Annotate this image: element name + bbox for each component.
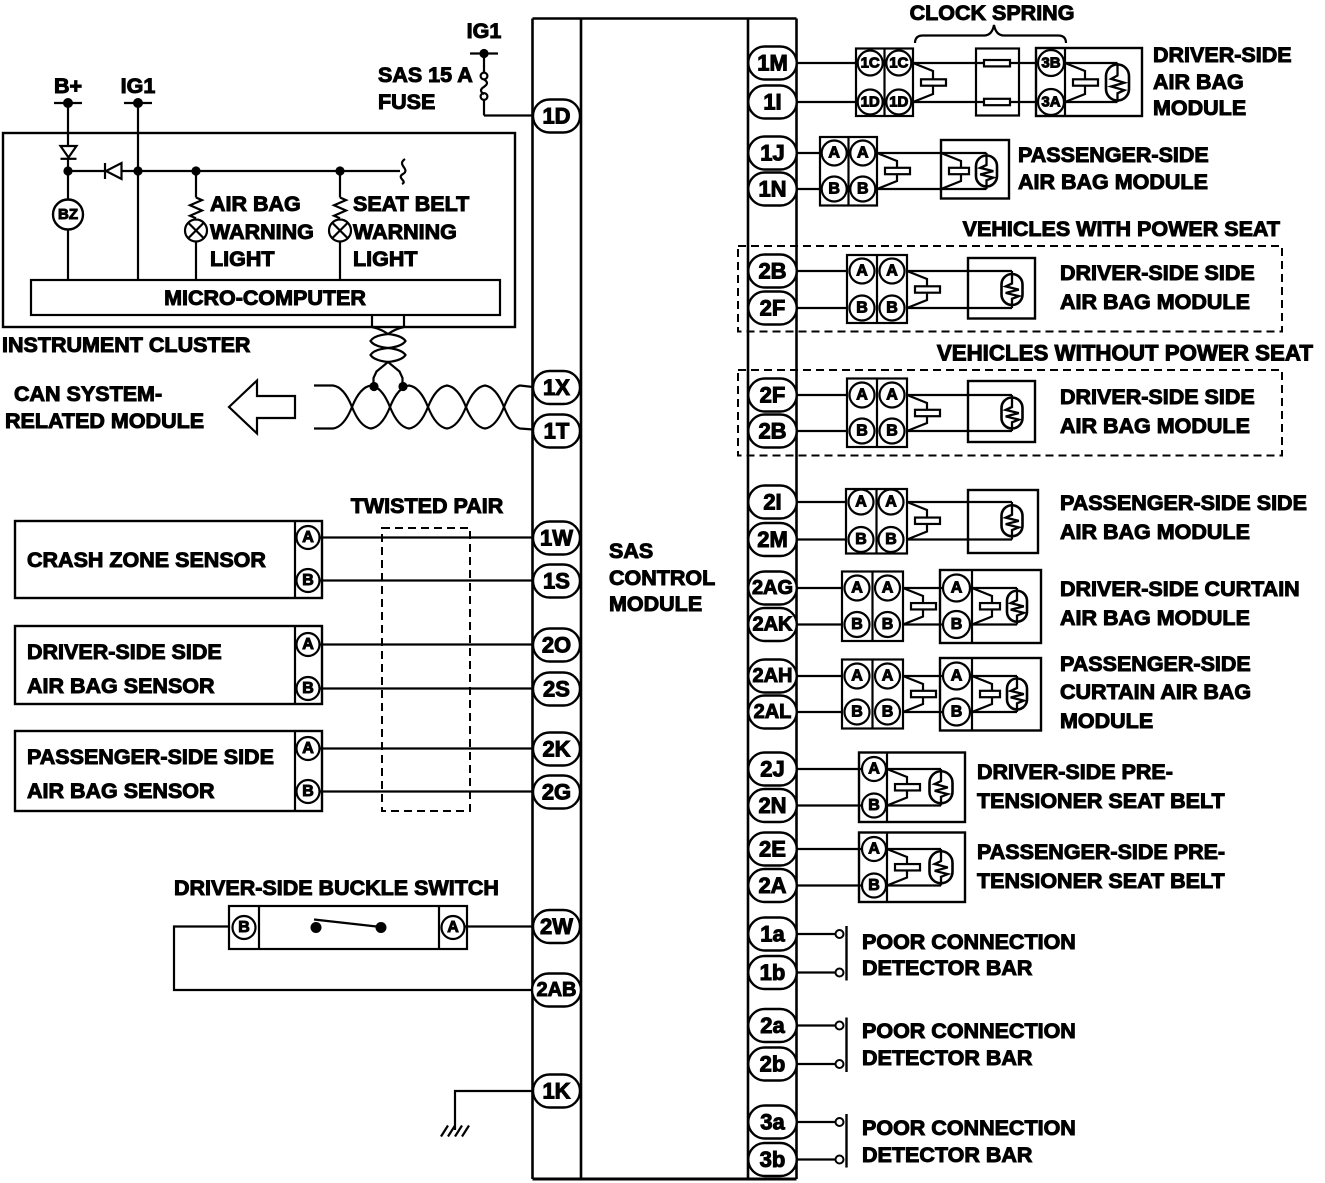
pin A right (no power seat) xyxy=(880,383,905,408)
svg-text:A: A xyxy=(857,145,869,162)
svg-text:2M: 2M xyxy=(757,527,788,552)
svg-text:2AH: 2AH xyxy=(752,665,792,687)
shorting resistor (no power seat module) xyxy=(1011,395,1013,431)
shorting resistor pre-tensioner xyxy=(940,849,942,886)
svg-text:AIR BAG SENSOR: AIR BAG SENSOR xyxy=(27,779,215,803)
wire B+ down to diode xyxy=(67,103,69,146)
label pre-tensioner seat belt xyxy=(977,840,1225,893)
wire lower to detector bar xyxy=(797,1158,836,1160)
svg-text:2F: 2F xyxy=(760,383,786,408)
svg-text:POOR CONNECTION: POOR CONNECTION xyxy=(862,1116,1076,1140)
squib driver-side side air bag (power seat) xyxy=(907,271,927,308)
wire 2F to connector (no power seat) xyxy=(797,394,848,396)
pin 3A xyxy=(1038,89,1064,115)
svg-text:A: A xyxy=(886,263,898,280)
svg-text:B: B xyxy=(238,919,250,936)
svg-text:AIR BAG MODULE: AIR BAG MODULE xyxy=(1060,520,1250,544)
svg-text:B: B xyxy=(951,616,963,633)
svg-text:2O: 2O xyxy=(542,633,571,658)
svg-text:VEHICLES WITHOUT POWER SEAT: VEHICLES WITHOUT POWER SEAT xyxy=(937,341,1314,366)
shorting resistor driver air bag xyxy=(1116,63,1118,102)
connector 2AK xyxy=(748,608,797,641)
connector block driver side air bag (no power seat) xyxy=(847,379,907,448)
svg-text:B: B xyxy=(868,877,880,894)
svg-text:B: B xyxy=(851,616,863,633)
pin B left curtain xyxy=(845,612,870,637)
arrow to CAN system-related module xyxy=(229,381,295,434)
pin B curtain module xyxy=(943,611,970,638)
wire connector to clock spring coil lower xyxy=(913,101,984,103)
pin B pre-tensioner xyxy=(862,874,886,898)
squib at clock spring connector xyxy=(913,63,933,102)
connector 2AL xyxy=(748,696,797,729)
pin 1D right xyxy=(886,90,911,115)
svg-text:2b: 2b xyxy=(760,1052,786,1077)
pin A driver-side side sensor xyxy=(297,633,320,656)
resistor air bag warning xyxy=(190,171,202,218)
svg-text:BZ: BZ xyxy=(58,206,78,223)
svg-text:1D: 1D xyxy=(861,94,880,111)
wire 1I to clock spring connector xyxy=(797,101,857,103)
svg-text:POOR CONNECTION: POOR CONNECTION xyxy=(862,930,1076,954)
svg-text:2a: 2a xyxy=(760,1013,785,1038)
wire lower to pre-tensioner xyxy=(797,884,863,886)
svg-text:A: A xyxy=(855,494,867,511)
svg-text:MODULE: MODULE xyxy=(609,592,702,616)
pin B left (power seat) xyxy=(850,296,875,321)
pin B right curtain xyxy=(875,700,900,725)
svg-text:AIR BAG SENSOR: AIR BAG SENSOR xyxy=(27,674,215,698)
svg-text:DRIVER-SIDE PRE-: DRIVER-SIDE PRE- xyxy=(977,760,1173,784)
pin A right (passenger air bag) xyxy=(850,141,875,166)
micro-computer box xyxy=(31,280,500,315)
shorting resistor (power seat module) xyxy=(1011,271,1013,308)
pin A right curtain xyxy=(875,576,900,601)
label DRIVER-SIDE SIDE AIR BAG MODULE (no power seat) xyxy=(1060,385,1255,438)
svg-text:CRASH ZONE SENSOR: CRASH ZONE SENSOR xyxy=(27,548,266,572)
resistor seat belt warning xyxy=(334,171,346,218)
svg-text:POOR CONNECTION: POOR CONNECTION xyxy=(862,1019,1076,1043)
wire to module (power seat) lower xyxy=(907,307,1012,309)
poor connection detector bar xyxy=(845,1018,847,1073)
wire horizontal rail y171 xyxy=(68,170,400,172)
wire lower to detector bar xyxy=(797,971,836,973)
wire lower to pre-tensioner xyxy=(797,804,863,806)
junction dot air bag branch xyxy=(191,166,200,175)
squib at curtain connector xyxy=(903,588,923,625)
wire clock spring to 3A xyxy=(1010,101,1038,103)
pin B passenger-side side sensor xyxy=(297,780,320,803)
svg-text:CAN SYSTEM-: CAN SYSTEM- xyxy=(14,382,162,406)
poor connection detector bar xyxy=(845,926,847,981)
instrument cluster box xyxy=(3,133,515,327)
connector 2AB xyxy=(532,974,581,1007)
SAS control module box outline xyxy=(533,19,797,1180)
squib at curtain connector xyxy=(903,676,923,712)
connector 3a xyxy=(748,1106,797,1139)
svg-text:A: A xyxy=(951,668,963,685)
svg-text:1J: 1J xyxy=(760,141,784,166)
svg-text:1T: 1T xyxy=(544,419,570,444)
svg-text:A: A xyxy=(851,580,863,597)
connector 2S xyxy=(533,673,580,706)
shorting resistor curtain module xyxy=(1016,588,1018,625)
squib at passenger air bag connector xyxy=(877,153,897,189)
svg-text:DRIVER-SIDE SIDE: DRIVER-SIDE SIDE xyxy=(1060,385,1255,409)
svg-text:2G: 2G xyxy=(542,780,571,805)
squib driver air bag xyxy=(1065,63,1085,102)
junction dot seat belt branch xyxy=(335,166,344,175)
label AIR BAG WARNING LIGHT xyxy=(210,192,314,271)
wire to module (power seat) upper xyxy=(907,270,1012,272)
svg-text:B: B xyxy=(302,783,314,800)
wire upper to pre-tensioner xyxy=(797,848,863,850)
svg-text:PASSENGER-SIDE SIDE: PASSENGER-SIDE SIDE xyxy=(27,745,274,769)
svg-text:A: A xyxy=(302,740,314,757)
connector 1M xyxy=(748,47,797,80)
connector 2I xyxy=(748,486,797,519)
pin A right curtain xyxy=(875,664,900,689)
pin A right (pass side) xyxy=(879,490,904,515)
svg-text:1N: 1N xyxy=(758,177,786,202)
node B+ terminal xyxy=(54,74,82,108)
svg-text:AIR BAG MODULE: AIR BAG MODULE xyxy=(1060,290,1250,314)
connector 2N xyxy=(748,789,797,822)
connector 2B xyxy=(748,415,797,448)
pin A curtain module xyxy=(943,663,970,690)
svg-text:2E: 2E xyxy=(759,837,786,862)
wire driver side sensor B to 2S xyxy=(320,687,534,689)
pin A left curtain xyxy=(845,576,870,601)
pin 1C left xyxy=(858,51,883,76)
wire 3B to driver air bag squib xyxy=(1065,62,1118,64)
svg-text:A: A xyxy=(828,145,840,162)
pre-tensioner seat belt box xyxy=(859,833,965,903)
twisted pair dashed box xyxy=(382,528,470,811)
svg-text:2AG: 2AG xyxy=(752,577,793,599)
dashed box vehicles without power seat xyxy=(738,370,1282,456)
connector 2F xyxy=(748,292,797,325)
pin A passenger-side side sensor xyxy=(297,737,320,760)
label CAN SYSTEM-RELATED MODULE xyxy=(5,382,204,433)
connector 1X xyxy=(533,371,580,404)
squib pre-tensioner xyxy=(887,769,907,806)
pin B curtain module xyxy=(943,699,970,726)
svg-text:PASSENGER-SIDE: PASSENGER-SIDE xyxy=(1018,143,1209,167)
connector 2F xyxy=(748,379,797,412)
passenger-side side air bag sensor box xyxy=(15,731,322,811)
wire 3A to driver air bag squib xyxy=(1065,101,1118,103)
pin B right (pass side) xyxy=(879,527,904,552)
terminal circle lower xyxy=(836,1060,844,1068)
wire buzzer to micro-computer xyxy=(67,230,69,281)
svg-text:MICRO-COMPUTER: MICRO-COMPUTER xyxy=(164,286,366,310)
connector 2O xyxy=(533,629,580,662)
junction dot B+ rail xyxy=(63,166,72,175)
shorting resistor pre-tensioner xyxy=(940,769,942,806)
connector 2AG xyxy=(748,572,797,605)
svg-text:FUSE: FUSE xyxy=(378,90,435,114)
svg-text:PASSENGER-SIDE: PASSENGER-SIDE xyxy=(1060,652,1251,676)
svg-text:2B: 2B xyxy=(758,259,786,284)
node IG1 (fuse feed) xyxy=(467,19,502,58)
svg-text:A: A xyxy=(951,580,963,597)
svg-text:IG1: IG1 xyxy=(121,74,156,98)
svg-text:B: B xyxy=(886,423,898,440)
svg-text:DRIVER-SIDE BUCKLE SWITCH: DRIVER-SIDE BUCKLE SWITCH xyxy=(174,876,499,900)
svg-text:B: B xyxy=(856,300,868,317)
clock spring coil box xyxy=(976,49,1019,116)
svg-text:B: B xyxy=(868,797,880,814)
label DRIVER-SIDE SIDE AIR BAG SENSOR xyxy=(27,640,222,698)
wire to module (no power seat) lower xyxy=(907,430,1012,432)
svg-text:3A: 3A xyxy=(1041,94,1060,111)
svg-text:TENSIONER SEAT BELT: TENSIONER SEAT BELT xyxy=(977,869,1225,893)
svg-text:2AL: 2AL xyxy=(754,701,792,723)
svg-text:A: A xyxy=(886,387,898,404)
label SEAT BELT WARNING LIGHT xyxy=(353,192,469,271)
svg-text:LIGHT: LIGHT xyxy=(353,247,418,271)
label curtain air bag module xyxy=(1060,577,1300,630)
passenger-side side air bag module box xyxy=(968,490,1038,553)
connector 1N xyxy=(748,173,797,206)
pin A pre-tensioner xyxy=(862,757,886,781)
wire 1J to connector xyxy=(797,152,821,154)
svg-text:2N: 2N xyxy=(758,793,786,818)
svg-text:1K: 1K xyxy=(542,1079,570,1104)
node IG1 terminal (cluster) xyxy=(121,74,156,108)
terminal circle upper xyxy=(836,1118,844,1126)
svg-text:TENSIONER SEAT BELT: TENSIONER SEAT BELT xyxy=(977,789,1225,813)
squib passenger air bag xyxy=(941,153,961,189)
svg-text:IG1: IG1 xyxy=(467,19,502,43)
pin B crash zone sensor xyxy=(297,569,320,592)
label SAS CONTROL MODULE xyxy=(609,539,715,616)
shorting resistor curtain module xyxy=(1016,676,1018,712)
wire crash B to 1S xyxy=(320,579,534,581)
wire upper to curtain connector xyxy=(797,675,843,677)
svg-text:PASSENGER-SIDE PRE-: PASSENGER-SIDE PRE- xyxy=(977,840,1225,864)
svg-text:2B: 2B xyxy=(758,419,786,444)
connector 2G xyxy=(533,776,580,809)
svg-text:1W: 1W xyxy=(540,526,573,551)
svg-text:WARNING: WARNING xyxy=(210,220,314,244)
svg-text:A: A xyxy=(856,263,868,280)
driver-side air bag module box xyxy=(1036,48,1142,116)
connector 2W xyxy=(533,910,580,943)
connector 1D xyxy=(533,100,580,133)
junction dot IG1 rail xyxy=(133,166,142,175)
dashed box vehicles with power seat xyxy=(738,246,1282,332)
connector 2A xyxy=(748,869,797,902)
wire pre-tensioner internal upper xyxy=(887,848,941,850)
label PASSENGER-SIDE AIR BAG MODULE xyxy=(1018,143,1209,194)
svg-text:1C: 1C xyxy=(889,55,908,72)
svg-text:2S: 2S xyxy=(543,677,570,702)
svg-text:A: A xyxy=(868,841,880,858)
svg-text:1a: 1a xyxy=(760,922,785,947)
squib passenger-side side air bag xyxy=(907,502,927,540)
connector 2b xyxy=(748,1048,797,1081)
connector 1J xyxy=(748,137,797,170)
wire upper to detector bar xyxy=(797,933,836,935)
wire pre-tensioner internal upper xyxy=(887,768,941,770)
wire to passenger side module lower xyxy=(907,538,1012,540)
wire crash A to 1W xyxy=(320,536,534,538)
wire lower to detector bar xyxy=(797,1063,836,1065)
connector block passenger-side side air bag xyxy=(846,489,907,554)
connector 1T xyxy=(533,415,580,448)
svg-text:2AK: 2AK xyxy=(752,614,793,636)
svg-text:MODULE: MODULE xyxy=(1153,96,1246,120)
pin 3B xyxy=(1038,50,1064,76)
svg-text:1D: 1D xyxy=(542,104,570,129)
svg-text:PASSENGER-SIDE SIDE: PASSENGER-SIDE SIDE xyxy=(1060,491,1307,515)
junction dot twisted pair left xyxy=(369,382,378,391)
svg-text:A: A xyxy=(851,668,863,685)
wire diode to buzzer xyxy=(67,159,69,200)
pin B left (passenger air bag) xyxy=(822,177,847,202)
wire driver side sensor A to 2O xyxy=(320,643,534,645)
svg-text:A: A xyxy=(447,919,459,936)
svg-text:DRIVER-SIDE CURTAIN: DRIVER-SIDE CURTAIN xyxy=(1060,577,1300,601)
wire buckle B to 2AB xyxy=(174,927,533,991)
wire connector to passenger module lower xyxy=(877,188,987,190)
connector block curtain (4 pins) xyxy=(842,660,903,729)
switch contacts xyxy=(311,920,387,934)
connector 2K xyxy=(533,733,580,766)
pin 1D left xyxy=(858,90,883,115)
svg-text:1M: 1M xyxy=(757,51,788,76)
svg-text:A: A xyxy=(302,529,314,546)
wire lower to curtain connector xyxy=(797,711,843,713)
pin B right (passenger air bag) xyxy=(850,177,875,202)
svg-text:A: A xyxy=(302,636,314,653)
terminal circle lower xyxy=(836,1156,844,1164)
svg-text:3B: 3B xyxy=(1041,55,1060,72)
shorting resistor passenger air bag xyxy=(985,153,987,189)
wire buckle A to 2W xyxy=(465,925,534,927)
connector 1a xyxy=(748,918,797,951)
svg-text:2A: 2A xyxy=(758,873,786,898)
pin B left (no power seat) xyxy=(850,419,875,444)
wire lower to curtain connector xyxy=(797,623,843,625)
pin A curtain module xyxy=(943,575,970,602)
label POOR CONNECTION DETECTOR BAR xyxy=(862,930,1076,980)
connector 2M xyxy=(748,523,797,556)
driver-side side air bag module box (power seat) xyxy=(968,258,1035,319)
terminal circle lower xyxy=(836,969,844,977)
pin A left curtain xyxy=(845,664,870,689)
squib curtain module xyxy=(972,588,992,625)
svg-text:CLOCK SPRING: CLOCK SPRING xyxy=(910,1,1075,25)
label POOR CONNECTION DETECTOR BAR xyxy=(862,1019,1076,1070)
svg-text:AIR BAG MODULE: AIR BAG MODULE xyxy=(1018,170,1208,194)
svg-text:VEHICLES WITH POWER SEAT: VEHICLES WITH POWER SEAT xyxy=(963,217,1280,241)
pin B left curtain xyxy=(845,700,870,725)
twisted pair CAN bus to 1X and 1T xyxy=(314,386,533,430)
svg-text:B: B xyxy=(828,181,840,198)
pin A crash zone sensor xyxy=(297,526,320,549)
svg-text:B: B xyxy=(302,572,314,589)
pin B buckle switch xyxy=(233,916,256,939)
connector 2J xyxy=(748,753,797,786)
svg-text:A: A xyxy=(885,494,897,511)
pin B right (power seat) xyxy=(880,296,905,321)
svg-text:SEAT BELT: SEAT BELT xyxy=(353,192,469,216)
wire 2B to connector (no power seat) xyxy=(797,430,848,432)
ground symbol xyxy=(441,1126,469,1137)
connector 2E xyxy=(748,833,797,866)
wire to curtain module lower xyxy=(903,623,1017,625)
crash zone sensor box xyxy=(15,521,322,598)
label SAS 15 A FUSE xyxy=(378,63,473,114)
svg-text:B: B xyxy=(856,423,868,440)
wire 2F to connector (power seat) xyxy=(797,307,848,309)
clock spring brace xyxy=(915,25,1066,43)
wire pre-tensioner internal lower xyxy=(887,884,941,886)
pin B pre-tensioner xyxy=(862,794,886,818)
connector 1S xyxy=(533,565,580,598)
pin A left (no power seat) xyxy=(850,383,875,408)
label pre-tensioner seat belt xyxy=(977,760,1225,813)
wire fuse to connector 1D xyxy=(484,114,533,116)
connector 1K xyxy=(533,1075,580,1108)
svg-text:2F: 2F xyxy=(760,296,786,321)
svg-text:B: B xyxy=(885,531,897,548)
svg-text:2W: 2W xyxy=(540,914,573,939)
svg-text:INSTRUMENT CLUSTER: INSTRUMENT CLUSTER xyxy=(2,333,251,357)
squib pre-tensioner xyxy=(887,849,907,886)
svg-text:WARNING: WARNING xyxy=(353,220,457,244)
svg-text:DETECTOR BAR: DETECTOR BAR xyxy=(862,1046,1033,1070)
svg-text:1D: 1D xyxy=(889,94,908,111)
shorting resistor (passenger side module) xyxy=(1011,502,1013,540)
svg-text:A: A xyxy=(882,668,894,685)
pin B driver-side side sensor xyxy=(297,677,320,700)
svg-text:B: B xyxy=(302,680,314,697)
pin A left (power seat) xyxy=(850,259,875,284)
svg-text:B: B xyxy=(857,181,869,198)
svg-text:AIR BAG: AIR BAG xyxy=(1153,70,1244,94)
wire upper to detector bar xyxy=(797,1024,836,1026)
svg-text:MODULE: MODULE xyxy=(1060,709,1153,733)
pin B right curtain xyxy=(875,612,900,637)
svg-text:B: B xyxy=(951,704,963,721)
connector 1I xyxy=(748,86,797,119)
svg-text:B: B xyxy=(882,704,894,721)
connector block curtain (4 pins) xyxy=(842,572,903,642)
terminal circle upper xyxy=(836,930,844,938)
driver-side buckle switch box xyxy=(229,906,467,949)
pin A buckle switch xyxy=(442,916,465,939)
connector block driver side air bag (power seat) xyxy=(847,255,907,323)
wire upper to detector bar xyxy=(797,1121,836,1123)
svg-text:B: B xyxy=(886,300,898,317)
terminal circle upper xyxy=(836,1022,844,1030)
connector 1W xyxy=(533,522,580,555)
pin A pre-tensioner xyxy=(862,837,886,861)
svg-text:AIR BAG MODULE: AIR BAG MODULE xyxy=(1060,606,1250,630)
svg-text:A: A xyxy=(882,580,894,597)
wire passenger side sensor A to 2K xyxy=(320,747,534,749)
connector 2a xyxy=(748,1009,797,1042)
junction dot twisted pair right xyxy=(398,382,407,391)
squib curtain module xyxy=(972,676,992,712)
svg-text:B+: B+ xyxy=(54,74,82,98)
pin B right (no power seat) xyxy=(880,419,905,444)
label PASSENGER-SIDE SIDE AIR BAG SENSOR xyxy=(27,745,274,803)
